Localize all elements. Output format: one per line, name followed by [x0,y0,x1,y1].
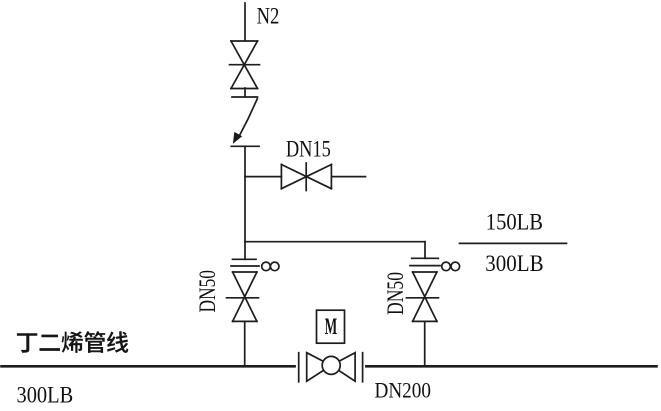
valve V5: DN200 motor-operated ball valve [299,353,363,382]
pipe break tick (upper) [232,96,258,98]
svg-text:N2: N2 [257,4,280,29]
wire: main drop to header tee [244,146,246,241]
CJK char 二 [40,335,61,351]
valve V1: N2 isolation gate valve (vertical bowtie) [230,41,260,89]
wire: header tee horizontal [245,241,425,243]
wire: left branch to main line [244,321,246,366]
valve V3: DN50 gate valve left (vertical bowtie) [227,272,259,321]
CJK char 丁 [17,333,37,352]
wire: right branch drop from tee [424,242,426,259]
wire: below valve V1 [244,88,246,97]
svg-text:DN15: DN15 [286,137,331,162]
spectacle blind figure-8 (right branch) [442,262,460,271]
CJK char 管 [84,331,105,353]
spectacle blind figure-8 (left branch) [262,262,279,271]
wire: N2 inlet vertical [244,3,246,41]
wire: left branch drop from tee [244,242,246,260]
main butadiene pipeline (bold) [2,365,295,368]
svg-text:DN50: DN50 [383,272,408,315]
svg-text:300LB: 300LB [485,251,543,276]
flange pair (right branch) [410,258,440,265]
wire: DN15 branch left segment [245,176,281,178]
svg-text:DN200: DN200 [375,378,431,403]
CJK char 线 [107,331,128,353]
svg-text:M: M [325,314,338,340]
CJK char 烯 [62,331,83,353]
flange pair (left branch) [231,259,259,266]
spec break divider line [460,242,567,244]
svg-text:DN50: DN50 [195,270,220,313]
pipe break tick (lower) [231,145,259,147]
valve V2: DN15 globe valve (horizontal bowtie with stem tick) [281,163,331,191]
svg-text:300LB: 300LB [17,383,74,408]
wire: DN15 branch right segment [331,176,365,178]
valve V4: DN50 gate valve right (vertical bowtie) [407,272,439,321]
flow arrow (vent zigzag with filled arrowhead) [233,99,257,144]
motor actuator box M [317,310,345,343]
CJK pipeline name 丁二烯管线 [17,331,128,353]
wire: right branch to main line [424,321,426,366]
svg-text:150LB: 150LB [486,210,543,235]
